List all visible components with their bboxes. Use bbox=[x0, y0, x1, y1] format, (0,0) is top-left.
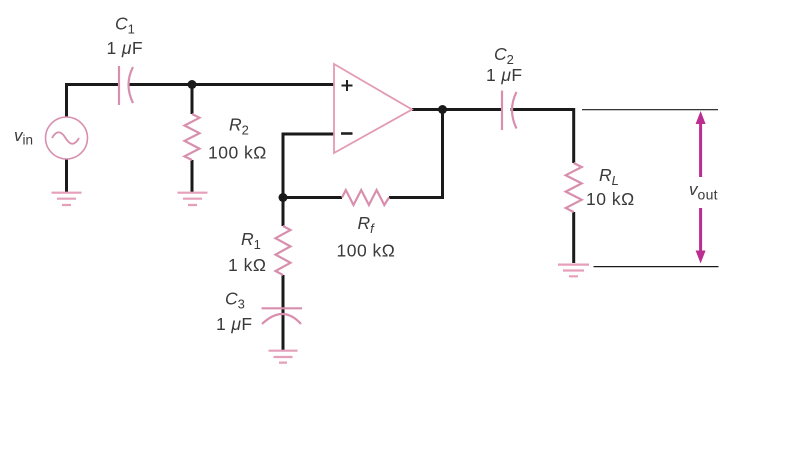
svg-text:C2: C2 bbox=[494, 44, 514, 67]
svg-text:1 kΩ: 1 kΩ bbox=[228, 255, 266, 275]
svg-text:R2: R2 bbox=[229, 115, 249, 138]
svg-text:1 μF: 1 μF bbox=[107, 38, 144, 58]
svg-text:1 μF: 1 μF bbox=[216, 314, 253, 334]
svg-text:10 kΩ: 10 kΩ bbox=[586, 189, 635, 209]
svg-text:100 kΩ: 100 kΩ bbox=[208, 143, 267, 163]
svg-text:100 kΩ: 100 kΩ bbox=[337, 241, 396, 261]
svg-text:C1: C1 bbox=[115, 14, 135, 37]
svg-text:C3: C3 bbox=[225, 289, 245, 312]
svg-text:vout: vout bbox=[689, 180, 718, 203]
svg-text:Rf: Rf bbox=[358, 213, 376, 236]
svg-text:R1: R1 bbox=[241, 229, 261, 252]
svg-text:vin: vin bbox=[14, 126, 33, 148]
svg-text:RL: RL bbox=[599, 165, 619, 188]
svg-text:1 μF: 1 μF bbox=[486, 65, 523, 85]
